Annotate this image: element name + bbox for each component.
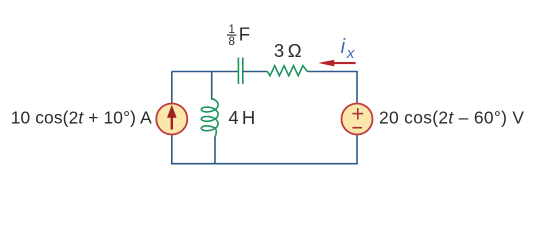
- inductor L 4 H coil: [201, 98, 218, 137]
- wire left vertical lower: [171, 135, 173, 164]
- wire resistor to top right corner down: [307, 72, 357, 104]
- wire bottom horizontal: [171, 163, 358, 165]
- wire capacitor to resistor: [243, 71, 268, 73]
- svg-text:1: 1: [228, 24, 234, 36]
- resistor R 3 ohm zigzag: [267, 66, 307, 76]
- svg-text:Ω: Ω: [288, 40, 302, 61]
- svg-text:10 cos(2t + 10°) A: 10 cos(2t + 10°) A: [11, 107, 152, 127]
- wire right vertical lower: [356, 135, 358, 164]
- svg-text:20 cos(2t – 60°) V: 20 cos(2t – 60°) V: [379, 107, 524, 127]
- svg-text:3: 3: [274, 40, 284, 61]
- svg-text:4: 4: [228, 107, 238, 128]
- voltage source minus sign: [352, 127, 362, 129]
- voltage source plus sign: [352, 108, 363, 128]
- capacitor C 1/8 F plates: [238, 58, 242, 85]
- wire middle branch upper stub: [211, 72, 213, 100]
- voltage source V1 circle: [342, 104, 373, 135]
- wire middle branch lower stub: [214, 137, 216, 163]
- svg-text:F: F: [239, 23, 250, 44]
- wire top horizontal left segment: [172, 71, 239, 73]
- current ix arrow red: [318, 60, 355, 67]
- wire left vertical upper: [171, 72, 173, 104]
- current source arrow up: [167, 105, 177, 130]
- svg-text:x: x: [346, 45, 355, 62]
- svg-text:8: 8: [228, 36, 234, 48]
- label 1/8 F value: [228, 24, 234, 48]
- current source I1 circle: [156, 104, 187, 135]
- svg-text:i: i: [341, 36, 346, 58]
- svg-text:H: H: [242, 107, 255, 128]
